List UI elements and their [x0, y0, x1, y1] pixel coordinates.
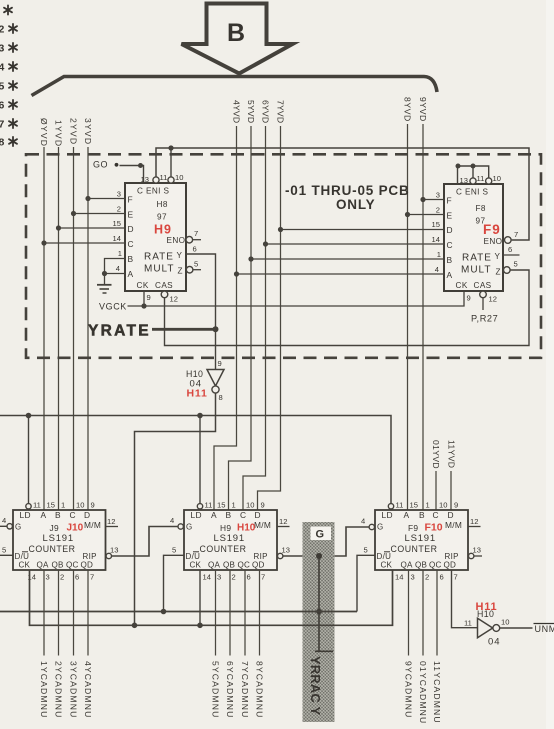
- svg-text:F10: F10: [425, 522, 443, 534]
- svg-text:LD: LD: [382, 510, 393, 520]
- rate multiplier H9 (7497) box: [125, 183, 186, 291]
- svg-text:1YVD: 1YVD: [53, 120, 63, 147]
- revision note 1*: [4, 5, 12, 14]
- svg-text:E: E: [447, 211, 453, 221]
- revision note 8*: [0, 137, 17, 149]
- wire H10 QD output: [259, 570, 261, 656]
- svg-text:6YCADMNU: 6YCADMNU: [225, 661, 235, 718]
- svg-text:5: 5: [172, 546, 176, 555]
- F9 pin 12 CAS bubble and stub: [480, 291, 487, 298]
- svg-text:RATE: RATE: [144, 252, 174, 263]
- svg-text:COUNTER: COUNTER: [391, 544, 438, 554]
- svg-text:H11: H11: [476, 601, 498, 613]
- svg-text:ENO: ENO: [484, 237, 503, 246]
- svg-text:UNM: UNM: [535, 624, 554, 634]
- svg-text:C: C: [447, 240, 453, 250]
- svg-text:2: 2: [436, 206, 440, 215]
- J9 top pin numbers: [33, 501, 95, 510]
- wire DVY4 to F9 pin A: [237, 273, 445, 275]
- svg-text:CK: CK: [19, 561, 31, 570]
- junction LD left counter: [26, 413, 32, 419]
- svg-text:15: 15: [217, 501, 225, 510]
- svg-text:M/M: M/M: [445, 520, 462, 530]
- H9 pin 5 Z bubble and stub: [186, 266, 193, 273]
- svg-text:B: B: [447, 255, 453, 265]
- F10 G pin 4 bubble: [369, 524, 374, 529]
- svg-text:CK: CK: [137, 281, 149, 290]
- svg-text:2: 2: [60, 573, 64, 582]
- F10 top pin numbers: [396, 501, 459, 510]
- F9 RATE MULT label: [461, 253, 492, 276]
- svg-text:4: 4: [435, 265, 439, 274]
- svg-text:4: 4: [170, 516, 174, 525]
- svg-text:Z: Z: [178, 267, 183, 276]
- F9 pin 11 bubble: [470, 178, 476, 184]
- wire to J9 LD: [28, 416, 30, 504]
- wire DVY6 to F9 pin C: [266, 243, 445, 245]
- H10 bottom pin letters: [190, 561, 265, 570]
- svg-text:ØYVD: ØYVD: [39, 118, 49, 147]
- counter H9/H10 LS191 box: [184, 510, 277, 570]
- wire H10 RIP to F10 G through Y CARRY: [283, 527, 369, 556]
- svg-text:11YVD: 11YVD: [446, 440, 456, 468]
- svg-text:P,R27: P,R27: [471, 314, 498, 324]
- wire LD bus: [0, 416, 391, 504]
- wire F10 QA output: [408, 570, 410, 656]
- counter F9/F10 LS191 box: [375, 510, 468, 570]
- wire DVY9: [422, 124, 424, 510]
- H9 RATE MULT label: [144, 252, 174, 275]
- svg-text:G: G: [377, 523, 384, 532]
- H10 G pin 4 bubble: [178, 524, 183, 529]
- svg-text:6: 6: [440, 573, 444, 582]
- svg-text:COUNTER: COUNTER: [200, 544, 247, 554]
- wire H10 CK pin 14 drop: [199, 570, 201, 625]
- svg-text:9YVD: 9YVD: [418, 97, 428, 122]
- svg-text:15: 15: [432, 220, 440, 229]
- svg-text:11: 11: [396, 501, 404, 510]
- svg-text:QA: QA: [37, 561, 49, 570]
- svg-text:H10: H10: [237, 523, 256, 534]
- svg-text:9: 9: [91, 501, 95, 510]
- svg-text:6: 6: [75, 573, 79, 582]
- svg-text:G: G: [316, 529, 325, 541]
- svg-text:J10: J10: [67, 523, 84, 534]
- svg-text:13: 13: [110, 546, 118, 555]
- wire ENI/S net from F9 ENO to U1 pins 11,10: [156, 148, 529, 240]
- svg-text:7YVD: 7YVD: [275, 100, 285, 123]
- svg-text:Z: Z: [496, 268, 501, 277]
- svg-text:QC: QC: [66, 561, 79, 570]
- svg-text:A: A: [41, 510, 47, 520]
- svg-text:YRRAC Y: YRRAC Y: [308, 656, 323, 716]
- svg-text:13: 13: [282, 546, 290, 555]
- svg-text:F8: F8: [476, 204, 486, 213]
- F10 internal labels: [377, 510, 463, 561]
- svg-text:B: B: [128, 254, 134, 264]
- svg-text:1: 1: [426, 501, 430, 510]
- wire F10 QB output: [422, 570, 424, 656]
- svg-text:4YCADMNU: 4YCADMNU: [83, 661, 93, 718]
- Y CARRY net line: [315, 556, 333, 651]
- svg-text:1: 1: [232, 501, 236, 510]
- F9 left pin numbers: [432, 191, 441, 275]
- F10 LD bubble pin 11: [388, 504, 393, 509]
- H9 left pin numbers: [113, 190, 122, 274]
- svg-text:15: 15: [113, 219, 121, 228]
- svg-text:A: A: [128, 269, 134, 279]
- svg-text:RATE: RATE: [462, 253, 492, 264]
- F10 D/U pin 5 wire to D/U bus: [357, 555, 375, 611]
- wire DVY3 to H9 pin F: [88, 198, 125, 200]
- wire DVY1: [58, 147, 60, 510]
- svg-text:CAS: CAS: [155, 281, 173, 290]
- svg-text:QB: QB: [223, 561, 235, 570]
- F10 bottom pin numbers: [395, 573, 458, 582]
- revision note 5*: [0, 81, 17, 93]
- svg-text:4: 4: [2, 516, 6, 525]
- svg-text:13: 13: [473, 546, 481, 555]
- svg-text:B: B: [227, 19, 245, 47]
- svg-text:D: D: [448, 510, 454, 520]
- svg-text:10: 10: [175, 173, 183, 182]
- H9 internal labels: [137, 187, 186, 291]
- wire DVY11: [450, 471, 452, 510]
- svg-text:1: 1: [437, 250, 441, 259]
- wire DVY4 with jog to counter H10 pin A: [214, 126, 237, 510]
- wire DVY6 with jog to counter H10 pin C: [243, 126, 266, 510]
- wire DVY9 to F9 pin F: [423, 199, 444, 201]
- svg-text:12: 12: [489, 295, 497, 304]
- svg-text:5YVD: 5YVD: [246, 100, 256, 123]
- svg-text:E: E: [128, 210, 134, 220]
- svg-text:C: C: [128, 239, 134, 249]
- svg-text:6: 6: [508, 245, 512, 254]
- revision note 3*: [0, 43, 17, 55]
- svg-text:4: 4: [0, 62, 5, 74]
- wire F10 QC output: [436, 570, 438, 656]
- svg-text:3: 3: [117, 190, 121, 199]
- svg-text:14: 14: [395, 573, 403, 582]
- svg-text:CK: CK: [381, 561, 393, 570]
- svg-text:9YCADMNU: 9YCADMNU: [403, 661, 413, 718]
- svg-text:6: 6: [193, 245, 197, 254]
- F9 top pin numbers: [460, 174, 501, 185]
- svg-text:13: 13: [141, 175, 149, 184]
- J9 LD bubble pin 11: [26, 504, 31, 509]
- H9 pin 6 Y output wire down to YRATE and inverter: [186, 254, 216, 370]
- svg-text:6: 6: [0, 100, 5, 112]
- svg-text:11: 11: [464, 619, 472, 628]
- H9 top pin numbers 13 11 10: [141, 173, 184, 184]
- svg-text:QC: QC: [238, 561, 251, 570]
- svg-text:Y: Y: [495, 252, 501, 261]
- svg-text:QD: QD: [81, 561, 94, 570]
- svg-text:14: 14: [203, 573, 211, 582]
- svg-text:8: 8: [0, 137, 5, 149]
- junction CK bus middle counter: [197, 623, 203, 629]
- svg-text:3YCADMNU: 3YCADMNU: [68, 661, 78, 718]
- H9 pin 7 ENO bubble and stub: [186, 236, 193, 243]
- svg-text:9: 9: [261, 501, 265, 510]
- revision note 7*: [0, 119, 17, 131]
- H9 pin letters F E D C B A: [128, 195, 134, 280]
- overline on D/U: [22, 551, 28, 553]
- svg-text:4: 4: [116, 264, 120, 273]
- svg-text:9: 9: [454, 501, 458, 510]
- overline on D/U middle: [193, 551, 199, 553]
- dashed box -01 THRU -05 PCB ONLY region: [26, 154, 541, 357]
- wire J9 QC output: [73, 570, 75, 656]
- svg-text:G: G: [15, 523, 22, 532]
- svg-text:7: 7: [194, 229, 198, 238]
- svg-text:3: 3: [436, 191, 440, 200]
- wire DVY2: [73, 147, 75, 510]
- H9 pin 10 bubble: [168, 177, 174, 183]
- svg-text:3YVD: 3YVD: [83, 118, 93, 145]
- svg-text:H10: H10: [186, 369, 203, 379]
- revision note 6*: [0, 100, 17, 112]
- svg-text:14: 14: [432, 235, 440, 244]
- J9 G pin 4 bubble and stub: [7, 524, 12, 529]
- inverter U2 H10-04 (top): [186, 359, 224, 402]
- svg-text:1: 1: [61, 501, 65, 510]
- wire DVY5 to F9 pin B: [251, 258, 444, 260]
- svg-text:CK: CK: [190, 561, 202, 570]
- J9 M/M pin 12 stub: [106, 526, 119, 528]
- svg-text:F: F: [447, 196, 452, 206]
- H10 LD bubble pin 11: [197, 504, 202, 509]
- svg-text:CAS: CAS: [474, 281, 492, 290]
- svg-text:12: 12: [470, 517, 478, 526]
- svg-text:YRATE: YRATE: [88, 323, 151, 340]
- wire DVY0: [43, 147, 45, 510]
- svg-text:13: 13: [460, 176, 468, 185]
- svg-text:B: B: [226, 510, 232, 520]
- svg-text:M/M: M/M: [84, 520, 101, 530]
- svg-text:B: B: [419, 510, 425, 520]
- H10 internal labels: [186, 510, 272, 561]
- svg-text:C ENI S: C ENI S: [137, 187, 170, 196]
- svg-text:QD: QD: [444, 561, 457, 570]
- svg-text:F: F: [128, 195, 133, 205]
- H10 top pin numbers: [205, 501, 265, 510]
- svg-text:11: 11: [477, 174, 485, 183]
- svg-text:3: 3: [0, 43, 5, 55]
- wire DVY7 to F9 pin D: [281, 229, 445, 231]
- svg-text:5: 5: [2, 546, 6, 555]
- wire F10 QD to inverter H10-04: [452, 570, 478, 628]
- wire H10 QC output: [244, 570, 246, 656]
- wire DVY8 to F9 pin E: [408, 214, 445, 216]
- F10 bottom pin letters: [381, 561, 457, 570]
- wire D/U bus: [0, 611, 357, 613]
- J9 internal labels: [15, 510, 102, 561]
- F9 pin 6 Y stub: [503, 254, 520, 256]
- svg-text:10: 10: [439, 501, 447, 510]
- F9 pin 10 bubble: [486, 178, 492, 184]
- svg-text:GO: GO: [93, 160, 108, 170]
- svg-text:10: 10: [246, 501, 254, 510]
- wire H10 QA output: [215, 570, 217, 656]
- wire DVY8: [407, 124, 409, 510]
- svg-text:M/M: M/M: [254, 520, 271, 530]
- svg-text:15: 15: [410, 501, 418, 510]
- H10 bottom pin numbers: [203, 573, 266, 582]
- svg-text:01YVD: 01YVD: [431, 440, 441, 469]
- svg-text:8YCADMNU: 8YCADMNU: [254, 661, 264, 718]
- svg-text:5: 5: [0, 81, 5, 93]
- svg-text:9: 9: [147, 293, 151, 302]
- J9 RIP pin 13 bubble: [106, 553, 111, 558]
- svg-text:C: C: [433, 510, 439, 520]
- svg-text:VGCK: VGCK: [99, 302, 127, 312]
- svg-text:04: 04: [488, 637, 501, 648]
- svg-text:11YCADMNU: 11YCADMNU: [432, 661, 442, 724]
- svg-text:01YCADMNU: 01YCADMNU: [418, 661, 428, 724]
- wire inverter output to UNM net: [500, 627, 533, 629]
- svg-text:7: 7: [514, 230, 518, 239]
- svg-text:7YCADMNU: 7YCADMNU: [240, 661, 250, 718]
- svg-text:MULT: MULT: [144, 264, 174, 275]
- svg-text:9: 9: [467, 294, 471, 303]
- svg-text:11: 11: [160, 173, 168, 182]
- svg-text:5: 5: [364, 546, 368, 555]
- wire DVY1 to H9 pin D: [59, 227, 126, 229]
- F9 top bus tying pins 13 11 10: [458, 166, 489, 184]
- svg-text:7: 7: [454, 573, 458, 582]
- svg-text:LS191: LS191: [43, 533, 74, 544]
- section brace: [32, 77, 438, 96]
- svg-text:H11: H11: [187, 388, 208, 400]
- wire to H10 LD: [199, 416, 201, 504]
- svg-text:QA: QA: [208, 561, 220, 570]
- wire J9 RIP to H10 G: [112, 527, 179, 557]
- svg-text:6YVD: 6YVD: [260, 100, 270, 123]
- H9 pin 11 bubble: [153, 177, 159, 183]
- svg-text:C: C: [70, 510, 76, 520]
- revision note 4*: [0, 62, 17, 74]
- J9 bottom pin numbers: [28, 573, 95, 582]
- H10 RIP pin 13 bubble: [278, 553, 283, 558]
- svg-text:B: B: [55, 510, 61, 520]
- svg-text:2YCADMNU: 2YCADMNU: [53, 661, 63, 718]
- overline on D/U right: [384, 551, 390, 553]
- wire DVY10: [435, 471, 437, 510]
- svg-text:3: 3: [217, 573, 221, 582]
- J9 D/U pin 5 stub to page edge: [0, 554, 13, 556]
- wire CAS H9 to Z F9: [165, 270, 530, 346]
- wire J9 QD output: [87, 570, 89, 656]
- svg-text:11: 11: [205, 501, 213, 510]
- wire stub to H9 pin 10: [170, 148, 172, 177]
- svg-text:2: 2: [232, 573, 236, 582]
- H9 pin 12 CAS bubble: [161, 291, 168, 298]
- svg-text:-01 THRU-05 PCB: -01 THRU-05 PCB: [285, 183, 410, 198]
- svg-text:7: 7: [0, 119, 5, 131]
- svg-text:3: 3: [46, 573, 50, 582]
- junction LD middle counter: [197, 413, 203, 419]
- svg-text:2YVD: 2YVD: [68, 118, 78, 145]
- section arrow B: [182, 4, 293, 74]
- svg-text:1: 1: [118, 249, 122, 258]
- svg-text:D: D: [128, 224, 134, 234]
- J9 bottom pin letters: [19, 561, 94, 570]
- H9 pin 9 CK stub: [143, 291, 145, 306]
- F10 RIP pin 13 bubble and stub: [469, 553, 474, 558]
- wire CK bus: [30, 570, 393, 625]
- svg-text:4YVD: 4YVD: [231, 100, 241, 123]
- wire YRATE to Y net: [152, 328, 216, 331]
- svg-text:C: C: [240, 510, 246, 520]
- svg-text:QD: QD: [252, 561, 265, 570]
- svg-text:QA: QA: [401, 561, 413, 570]
- wire DVY2 to H9 pin E: [74, 213, 126, 215]
- F9 pin 5 Z bubble: [504, 267, 511, 274]
- G box on Y CARRY bar: [311, 527, 332, 541]
- F9 pin letters F E D C B A: [447, 196, 453, 281]
- svg-text:A: A: [404, 510, 410, 520]
- svg-text:2: 2: [425, 573, 429, 582]
- svg-text:D: D: [84, 510, 90, 520]
- H10 M/M pin 12 stub: [277, 526, 290, 528]
- svg-text:D: D: [255, 510, 261, 520]
- svg-text:10: 10: [501, 618, 509, 627]
- wire DVY3: [87, 147, 89, 510]
- svg-text:5: 5: [514, 260, 518, 269]
- svg-text:LD: LD: [20, 510, 31, 520]
- svg-text:J9: J9: [50, 523, 59, 533]
- Y CARRY highlight bar: [303, 522, 335, 722]
- svg-text:COUNTER: COUNTER: [29, 544, 76, 554]
- svg-text:5: 5: [194, 260, 198, 269]
- svg-text:9: 9: [218, 359, 222, 368]
- svg-text:LD: LD: [191, 510, 202, 520]
- rate multiplier F9 (7497) box: [444, 184, 503, 291]
- svg-text:2: 2: [0, 24, 5, 36]
- svg-text:MULT: MULT: [461, 265, 491, 276]
- junction on ENI/S wire above pin 10: [168, 145, 173, 150]
- wire DVY5 with jog to counter H10 pin B: [229, 126, 252, 510]
- svg-text:4: 4: [361, 517, 365, 526]
- node GO: [93, 160, 144, 184]
- svg-text:H9: H9: [154, 223, 172, 237]
- svg-text:11: 11: [33, 501, 41, 510]
- wire DVY0 to H9 pin C: [44, 242, 125, 244]
- ground: [97, 285, 112, 293]
- svg-text:D: D: [447, 225, 453, 235]
- svg-text:7: 7: [90, 573, 94, 582]
- svg-text:LS191: LS191: [214, 533, 245, 544]
- wire VGCK to H9 pin 9 and F9 pin 9: [128, 291, 465, 306]
- wire J9 QA output: [43, 570, 45, 656]
- svg-text:QC: QC: [429, 561, 442, 570]
- svg-text:LS191: LS191: [405, 533, 436, 544]
- svg-text:15: 15: [47, 501, 55, 510]
- wire DVY7 with jog to counter H10 pin D: [258, 126, 281, 510]
- wire J9 QB output: [58, 570, 60, 656]
- wire H10 QB output: [229, 570, 231, 656]
- svg-text:14: 14: [113, 234, 121, 243]
- svg-text:QB: QB: [415, 561, 427, 570]
- svg-text:CK: CK: [456, 281, 468, 290]
- F9 pin 7 ENO bubble: [505, 237, 512, 244]
- junction Y CARRY tap on RIP wire: [316, 553, 322, 559]
- F10 M/M pin 12 stub: [468, 526, 481, 528]
- svg-text:8YVD: 8YVD: [402, 97, 412, 122]
- svg-text:10: 10: [493, 174, 501, 183]
- svg-text:6: 6: [247, 573, 251, 582]
